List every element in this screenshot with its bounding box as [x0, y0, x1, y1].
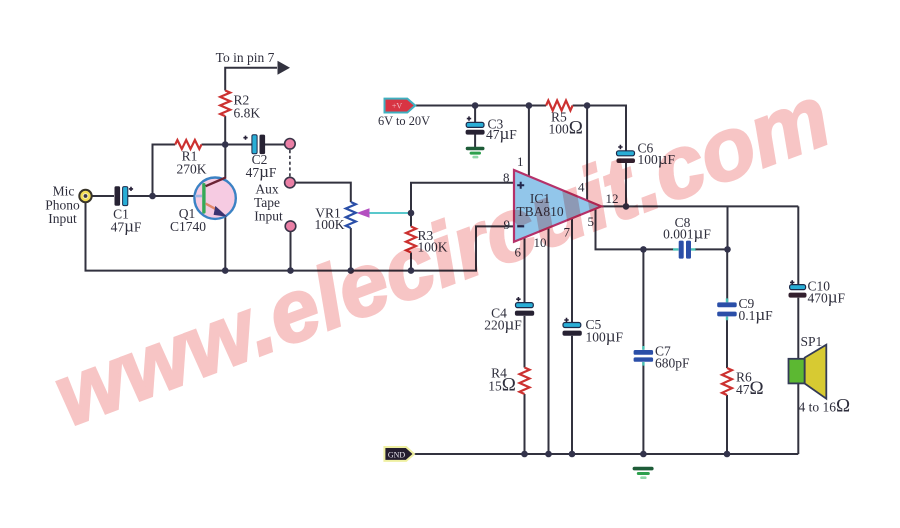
wire C8 node down to C7: [642, 249, 644, 349]
label C2 value: [246, 152, 277, 181]
wire R2 to arrow (to in pin 7): [225, 68, 277, 91]
wire ground rail: [414, 453, 798, 455]
resistor R3: [406, 227, 416, 253]
svg-text:47µF: 47µF: [486, 124, 517, 143]
wire speaker up to C10: [797, 298, 799, 359]
node junction 3: [222, 267, 229, 274]
svg-text:47µF: 47µF: [246, 162, 277, 181]
wire C7 to ground rail: [642, 362, 644, 454]
label R5 value: [549, 110, 583, 139]
label R2 value: [234, 93, 261, 121]
label C9 value: [739, 296, 774, 324]
wire VR1 wiper (cyan): [369, 212, 412, 214]
node junction 16: [569, 451, 576, 458]
svg-text:0.001µF: 0.001µF: [663, 224, 711, 243]
wire output down to C8 node: [727, 206, 729, 249]
capacitor C1: [115, 186, 134, 206]
svg-text:C1740: C1740: [170, 219, 206, 234]
svg-text:Input: Input: [254, 209, 283, 224]
svg-text:1: 1: [517, 154, 524, 169]
wire C3 to ground: [474, 134, 476, 147]
wire C6 to output node: [625, 163, 627, 207]
wire rail up to speaker: [797, 383, 799, 454]
svg-text:6V to 20V: 6V to 20V: [378, 114, 430, 128]
wire R3 to rail: [410, 253, 412, 271]
node junction 8: [472, 102, 479, 109]
wire C9 to R6: [726, 317, 728, 368]
svg-text:4 to 16Ω: 4 to 16Ω: [799, 396, 851, 417]
connector aux 2: [285, 177, 296, 188]
connector aux 1: [285, 139, 296, 150]
wire VR1 bottom to rail: [350, 228, 352, 271]
node junction 13: [724, 246, 731, 253]
op-amp IC1 TBA810: [514, 170, 601, 242]
svg-text:Mic: Mic: [53, 184, 75, 199]
label R6 value: [736, 370, 764, 400]
capacitor C7: [634, 346, 654, 366]
wire Q1 collector to node: [224, 145, 226, 178]
svg-text:680pF: 680pF: [655, 356, 690, 371]
svg-text:47µF: 47µF: [111, 217, 142, 236]
label C7 value: [655, 344, 690, 371]
dashed link aux connectors: [289, 150, 291, 177]
label R3 value: [418, 228, 448, 255]
wire C5 to ground rail: [571, 336, 573, 454]
capacitor C3: [466, 116, 485, 134]
label C8 value: [663, 215, 711, 243]
capacitor C5: [563, 318, 582, 336]
resistor R2: [220, 91, 230, 117]
ground (main): [633, 467, 654, 479]
capacitor C9: [717, 298, 737, 320]
wire IC pin 7 to C5: [571, 218, 573, 322]
node junction 4: [287, 267, 294, 274]
resistor R6: [722, 368, 732, 395]
connector J1 mic input: [79, 190, 91, 202]
node junction 18: [724, 451, 731, 458]
svg-text:100K: 100K: [315, 217, 345, 232]
arrowhead to in pin 7: [278, 61, 291, 75]
VR1 wiper arrow: [357, 208, 370, 218]
wire IC pin 6 to C4: [524, 238, 526, 303]
wire R4 to ground rail: [524, 394, 526, 454]
wire wiper node to IC pin 8: [411, 183, 514, 213]
svg-text:0.1µF: 0.1µF: [739, 305, 774, 324]
capacitor C2: [243, 135, 265, 155]
resistor R1: [175, 140, 201, 149]
capacitor C10: [789, 280, 807, 297]
wire mic to C1: [92, 195, 115, 197]
wire C4 to R4: [524, 316, 526, 368]
label C4 value: [484, 306, 522, 334]
resistor R5: [546, 101, 573, 111]
wire output pin 12 line: [601, 205, 798, 207]
svg-text:100µF: 100µF: [586, 327, 624, 346]
label aux tape input: [254, 182, 283, 224]
wire R6 to ground rail: [726, 395, 728, 454]
svg-text:15Ω: 15Ω: [488, 375, 516, 396]
node junction 7: [408, 210, 415, 217]
label C10 value: [808, 279, 846, 307]
label C1 value: [111, 207, 142, 236]
svg-text:270K: 270K: [177, 162, 207, 177]
resistor R4: [520, 368, 530, 395]
node junction 14: [521, 451, 528, 458]
svg-text:+V: +V: [392, 102, 403, 111]
wire Q1 emitter to rail: [224, 216, 226, 271]
label C3 value: [486, 117, 517, 144]
wire aux connector 2 to VR1 top: [295, 183, 351, 202]
node junction 1: [149, 193, 156, 200]
svg-text:6.8K: 6.8K: [234, 106, 261, 121]
wire +V rail right of R5 down to C6: [573, 106, 626, 151]
label VR1 value: [315, 206, 345, 233]
wire node up to R2: [224, 116, 226, 144]
wire input ground rail to IC pin 9: [86, 202, 514, 270]
node junction 11: [623, 203, 630, 210]
node junction 6: [408, 267, 415, 274]
wire C1 to Q1 base: [128, 195, 195, 197]
wire rail to IC pin 4: [586, 106, 588, 202]
wire wiper node down to R3: [410, 213, 412, 227]
wire R1 to node to C2: [202, 144, 252, 146]
power tag +V: [385, 99, 416, 113]
speaker SP1: [789, 345, 827, 399]
label Q1: [170, 206, 206, 234]
transistor Q1: [194, 177, 235, 219]
wire aux connector 3 to rail: [290, 232, 292, 271]
capacitor C8: [679, 241, 691, 259]
svg-text:GND: GND: [388, 451, 406, 460]
wire node down to C9: [726, 249, 728, 302]
node junction 5: [348, 267, 355, 274]
label C5 value: [586, 317, 624, 346]
node junction 15: [545, 451, 552, 458]
label C6 value: [638, 141, 676, 169]
svg-text:470µF: 470µF: [808, 288, 846, 307]
wire +V rail left of R5: [415, 105, 546, 107]
svg-text:SP1: SP1: [801, 334, 823, 349]
ground tag GND: [384, 447, 414, 461]
wire C8 to node: [696, 248, 728, 250]
wire output corner down to C10: [797, 206, 799, 284]
svg-text:47Ω: 47Ω: [736, 378, 764, 399]
connector aux 3: [285, 221, 296, 232]
node junction 10: [584, 102, 591, 109]
wire IC pin 10 to ground rail: [548, 228, 550, 454]
label R4 value: [488, 366, 516, 396]
capacitor C6: [617, 145, 636, 163]
node junction 2: [222, 141, 229, 148]
wire node to R1: [153, 145, 176, 197]
label R1 value: [177, 149, 207, 177]
capacitor C4: [515, 297, 534, 316]
C8 lead accents (teal): [673, 248, 696, 250]
potentiometer VR1: [346, 202, 356, 228]
node junction 9: [526, 102, 533, 109]
node junction 17: [640, 451, 647, 458]
node junction 12: [640, 246, 647, 253]
wire IC pin 5 to C8: [596, 209, 674, 250]
svg-text:220µF: 220µF: [484, 315, 522, 334]
wire rail to IC pin 1: [528, 106, 530, 177]
svg-text:100Ω: 100Ω: [549, 118, 583, 139]
svg-text:To in pin 7: To in pin 7: [216, 50, 275, 65]
label mic input: [45, 184, 80, 227]
ground (C3): [466, 147, 485, 159]
wire C2 to aux connector 1: [264, 144, 285, 146]
svg-text:Input: Input: [48, 211, 77, 226]
wire rail to C3: [474, 106, 476, 123]
